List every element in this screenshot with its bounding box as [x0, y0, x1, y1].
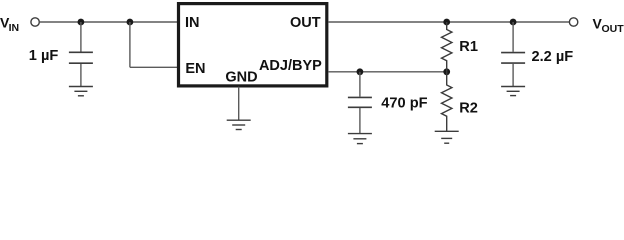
svg-text:IN: IN	[185, 15, 200, 31]
wire C1 bottom lead	[80, 64, 82, 86]
svg-text:2.2 µF: 2.2 µF	[532, 49, 574, 65]
wire C1 top lead	[80, 22, 82, 52]
resistor R1	[442, 22, 452, 72]
input terminal circle	[31, 18, 39, 26]
ground C3	[501, 87, 525, 96]
svg-text:GND: GND	[225, 69, 257, 85]
svg-text:1 µF: 1 µF	[29, 48, 59, 64]
node junction R1 top	[443, 19, 450, 26]
svg-text:OUT: OUT	[602, 23, 624, 35]
svg-text:IN: IN	[9, 22, 20, 34]
node junction at C1	[78, 19, 85, 26]
wire input rail	[39, 21, 177, 23]
node junction R1-R2	[443, 68, 450, 75]
wire C3 bottom lead	[512, 64, 514, 86]
svg-text:ADJ/BYP: ADJ/BYP	[259, 58, 322, 74]
svg-text:470 pF: 470 pF	[381, 96, 427, 112]
node junction at EN	[126, 19, 133, 26]
svg-text:R1: R1	[459, 39, 478, 55]
ground C2	[348, 134, 372, 144]
svg-text:OUT: OUT	[290, 15, 321, 31]
wire EN horizontal	[130, 66, 177, 68]
wire GND pin	[238, 87, 240, 120]
node VIN label	[0, 14, 19, 34]
svg-text:EN: EN	[185, 61, 205, 77]
wire C3 top lead	[512, 22, 514, 52]
output terminal circle	[569, 18, 577, 26]
capacitor C2 470pF	[348, 97, 372, 107]
ground R2	[435, 131, 459, 143]
wire ADJ/BYP rail	[328, 71, 447, 73]
capacitor C3 2.2uF	[501, 53, 525, 64]
ground GND pin	[227, 120, 251, 129]
op-amp U1 regulator box	[179, 4, 327, 86]
node junction C3 top	[510, 19, 517, 26]
ground C1	[69, 87, 93, 96]
resistor R2	[442, 72, 452, 132]
wire output rail	[328, 21, 569, 23]
wire EN vertical	[129, 22, 131, 67]
wire C2 bottom lead	[359, 108, 361, 133]
node VOUT label	[593, 15, 624, 35]
wire C2 top lead	[359, 72, 361, 97]
node junction C2 ADJ	[357, 68, 364, 75]
svg-text:R2: R2	[459, 100, 478, 116]
capacitor C1 1uF	[69, 52, 93, 63]
